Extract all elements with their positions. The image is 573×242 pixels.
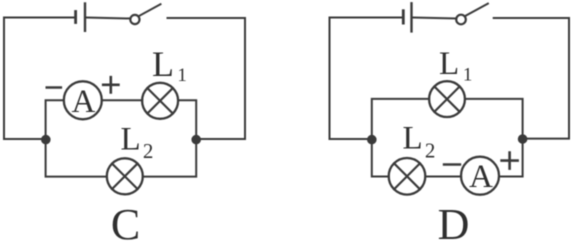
node: circuit C left junction dot — [42, 135, 50, 143]
lamp L1 (circuit D) — [429, 81, 465, 117]
svg-text:L: L — [121, 122, 141, 158]
polarity label: minus at ammeter (circuit D) — [444, 163, 460, 166]
label L1 (circuit C) — [152, 44, 187, 86]
wire: circuit D lamp L1 to right dot — [465, 99, 523, 139]
wire: circuit D battery to switch — [413, 18, 456, 19]
switch S (circuit D): pivot circle — [456, 15, 466, 25]
node: circuit C right junction dot — [192, 135, 200, 143]
lamp L2 (circuit D) — [389, 158, 426, 195]
wire: circuit C left dot down to lamp L2 — [46, 139, 107, 177]
wire: circuit C ammeter to lamp L1 — [102, 99, 142, 101]
wire: circuit D ammeter to right dot — [499, 139, 522, 177]
switch S (circuit D): open blade — [465, 4, 488, 17]
wire: circuit C left dot up to ammeter branch — [46, 100, 64, 139]
polarity label: plus at ammeter (circuit D) — [502, 153, 518, 169]
battery (circuit D): short negative plate — [402, 11, 405, 23]
wire: circuit D switch to top-right corner, right vertical, middle-right horizontal — [494, 18, 569, 139]
svg-text:2: 2 — [143, 139, 154, 163]
label L1 (circuit D) — [439, 46, 472, 86]
polarity label: plus at ammeter (circuit C) — [103, 77, 118, 92]
label L2 (circuit D) — [403, 121, 436, 163]
wire: circuit D lamp L2 to ammeter — [425, 176, 461, 178]
battery (circuit D): long positive plate — [410, 3, 412, 31]
caption: circuit C letter — [111, 200, 140, 242]
svg-text:1: 1 — [177, 65, 187, 86]
wire: circuit C lamp L2 to right dot — [143, 139, 196, 177]
svg-text:D: D — [438, 200, 470, 242]
caption: circuit D letter — [438, 200, 470, 242]
switch S (circuit C): open blade — [139, 4, 161, 16]
node: circuit D left junction dot — [368, 135, 376, 143]
node: circuit D right junction dot — [518, 135, 526, 143]
battery (circuit C): short negative plate — [74, 12, 77, 23]
svg-text:C: C — [111, 200, 140, 242]
wire: circuit C top-left segment, left vertical and middle-left horizontal — [4, 18, 75, 140]
svg-text:L: L — [403, 121, 423, 157]
switch S (circuit C): pivot circle — [130, 15, 139, 24]
label L2 (circuit C) — [121, 122, 154, 163]
svg-text:1: 1 — [463, 65, 473, 86]
wire: circuit D left dot down to lamp L2 — [372, 139, 389, 177]
ammeter A (circuit D) — [461, 157, 499, 196]
svg-text:A: A — [71, 84, 95, 120]
lamp L2 (circuit C) — [107, 158, 143, 194]
lamp L1 (circuit C) — [142, 83, 178, 119]
svg-text:L: L — [152, 44, 174, 84]
wire: circuit C switch to top-right corner, right vertical, middle-right horizontal — [168, 18, 246, 139]
wire: circuit C lamp L1 to right dot — [178, 100, 196, 139]
svg-text:A: A — [469, 159, 493, 195]
wire: circuit D top-left segment, left vertical and middle-left horizontal — [330, 18, 403, 140]
ammeter A (circuit C) — [64, 81, 102, 120]
svg-text:2: 2 — [425, 139, 436, 163]
svg-text:L: L — [439, 46, 459, 82]
battery (circuit C): long positive plate — [84, 4, 86, 31]
polarity label: minus at ammeter (circuit C) — [47, 86, 61, 89]
wire: circuit C battery to switch — [87, 18, 131, 19]
wire: circuit D left dot up to lamp L1 branch — [372, 99, 429, 139]
